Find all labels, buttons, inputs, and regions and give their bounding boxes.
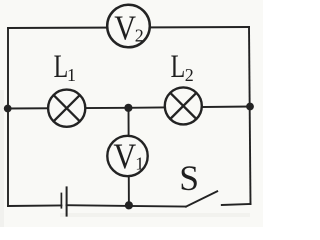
wire: top horizontal: [8, 27, 249, 28]
wire: bottom middle (battery to switch): [67, 205, 187, 206]
node: bottom junction: [125, 201, 133, 209]
switch S blade: [186, 191, 217, 206]
node: middle junction: [124, 104, 132, 112]
label L2: [171, 49, 194, 85]
label L1: [54, 49, 76, 85]
svg-text:1: 1: [135, 154, 144, 174]
wire: switch right stub: [222, 204, 251, 205]
node: left junction: [4, 105, 12, 113]
lamp L2: [165, 87, 202, 124]
lamp L1: [48, 90, 85, 127]
svg-text:S: S: [179, 158, 199, 198]
svg-text:L: L: [54, 49, 69, 85]
svg-text:L: L: [171, 49, 186, 85]
svg-text:2: 2: [135, 26, 144, 46]
wire: V1 branch vertical: [128, 108, 130, 206]
voltmeter V1: [107, 136, 147, 176]
scan streak: [60, 213, 250, 217]
svg-text:1: 1: [67, 65, 76, 85]
paper background: [0, 0, 263, 227]
svg-text:V: V: [114, 8, 136, 47]
wire: left vertical: [7, 28, 9, 206]
left edge scan smudge: [0, 90, 4, 227]
battery B1: [61, 186, 66, 216]
wire: right vertical: [249, 27, 251, 204]
wire: bottom left (to battery): [8, 204, 61, 207]
node: right junction: [246, 103, 254, 111]
voltmeter V2: [107, 5, 150, 48]
svg-text:V: V: [113, 136, 136, 176]
svg-text:2: 2: [185, 65, 194, 85]
wire: lamp row horizontal: [8, 107, 250, 109]
